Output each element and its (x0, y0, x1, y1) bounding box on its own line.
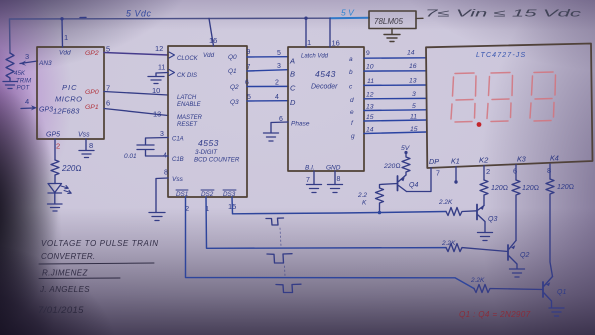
svg-text:K: K (362, 200, 367, 207)
potentiometer R-trim 45K (6, 53, 14, 79)
svg-text:POT: POT (17, 85, 31, 92)
wire GP0 pin7 to LATCH pin10 (104, 92, 168, 96)
ground Q1 (549, 308, 564, 316)
svg-text:120Ω: 120Ω (557, 184, 574, 191)
svg-text:8: 8 (547, 166, 551, 175)
svg-text:Vdd: Vdd (59, 50, 71, 57)
svg-text:2: 2 (275, 80, 279, 87)
svg-text:14: 14 (366, 127, 374, 134)
wire K1 stub (455, 167, 457, 181)
svg-text:5 Vdc: 5 Vdc (126, 9, 152, 19)
svg-text:5 V: 5 V (341, 8, 355, 18)
wire pin1 Vdd (61, 19, 64, 47)
svg-text:4553: 4553 (198, 138, 219, 148)
svg-text:3-DIGIT: 3-DIGIT (195, 149, 218, 156)
ground GND pin8 (328, 171, 343, 193)
svg-text:Latch Vdd: Latch Vdd (301, 54, 329, 60)
svg-text:PIC: PIC (62, 83, 78, 92)
svg-text:13: 13 (366, 104, 374, 111)
svg-text:MICRO: MICRO (55, 95, 83, 104)
svg-text:CLOCK: CLOCK (177, 56, 199, 62)
svg-text:DS1: DS1 (176, 191, 188, 198)
wire 5V rail traced segment to regulator (330, 17, 369, 19)
ground CK DIS pin11 (148, 73, 168, 84)
svg-text:120Ω: 120Ω (491, 185, 508, 192)
wire regulator input (416, 17, 423, 19)
wire GP1 pin6 to MASTER RESET pin13 (104, 109, 168, 116)
svg-text:15: 15 (366, 114, 374, 121)
regulator U2 78LM05 (369, 11, 416, 29)
svg-text:16: 16 (409, 63, 417, 70)
svg-text:GP2: GP2 (85, 50, 99, 57)
7seg digit 3 (530, 72, 556, 121)
transistor Q2 (507, 245, 509, 260)
svg-text:MASTER: MASTER (177, 115, 203, 121)
ground pot (3, 79, 17, 89)
svg-text:4: 4 (25, 97, 29, 106)
svg-text:GP0: GP0 (85, 89, 99, 96)
ground Vss 4553 pin8 (149, 178, 168, 221)
svg-text:2: 2 (56, 142, 60, 151)
svg-text:13: 13 (409, 78, 417, 85)
7seg digit 2 (487, 73, 513, 122)
ground BI pin7 (307, 171, 322, 193)
svg-text:Vss: Vss (78, 132, 90, 139)
svg-text:Decoder: Decoder (311, 84, 338, 91)
svg-text:f: f (351, 120, 354, 127)
svg-text:A: A (289, 57, 295, 66)
svg-text:2.2: 2.2 (357, 192, 367, 199)
ground LED (48, 193, 63, 211)
node junction dot rail/4543 (304, 17, 307, 20)
svg-text:CONVERTER.: CONVERTER. (41, 252, 95, 261)
svg-text:Q1: Q1 (228, 68, 237, 75)
wire DS1 bus (186, 197, 475, 289)
svg-text:3: 3 (160, 131, 164, 138)
resistor 2.2K to Q2 base (446, 244, 508, 252)
transistor Q1 (542, 282, 544, 297)
svg-text:1: 1 (307, 38, 311, 47)
svg-text:C1A: C1A (172, 137, 184, 143)
svg-text:2.2K: 2.2K (470, 277, 485, 284)
svg-text:a: a (349, 56, 353, 63)
svg-text:K4: K4 (550, 154, 559, 163)
svg-text:Q1: Q1 (557, 289, 566, 296)
wire DS2 bus (206, 197, 446, 248)
svg-text:9: 9 (247, 49, 251, 56)
svg-text:3: 3 (277, 63, 281, 70)
svg-text:Vss: Vss (172, 176, 184, 183)
svg-text:6: 6 (106, 99, 110, 108)
ground Phase pin6 (264, 122, 289, 141)
svg-text:Q3: Q3 (230, 99, 239, 106)
svg-text:D: D (290, 98, 296, 107)
svg-text:2.2K: 2.2K (438, 199, 453, 206)
svg-text:Phase: Phase (291, 121, 310, 128)
svg-text:Q3: Q3 (488, 216, 497, 223)
svg-text:2: 2 (486, 167, 490, 176)
counter U3 4553 (168, 46, 247, 197)
ground Vss PIC (79, 139, 94, 158)
svg-text:7≤ Vin ≤ 15 Vdc: 7≤ Vin ≤ 15 Vdc (425, 9, 581, 20)
svg-text:12F683: 12F683 (53, 107, 80, 116)
svg-text:10: 10 (152, 86, 160, 95)
svg-text:5: 5 (412, 103, 416, 110)
svg-text:AN3: AN3 (38, 60, 52, 67)
wire GP3 input arrow pin4 (21, 107, 33, 110)
svg-text:4: 4 (275, 94, 279, 101)
wire latch pin1 drop (305, 18, 307, 47)
svg-text:BCD COUNTER: BCD COUNTER (194, 157, 240, 164)
svg-text:RESET: RESET (177, 122, 198, 128)
svg-text:14: 14 (407, 50, 415, 57)
transistor Q3 (476, 205, 478, 220)
decimal point red (477, 122, 482, 127)
svg-text:GP3: GP3 (39, 107, 53, 114)
resistor 2.2K to Q1 base (474, 285, 543, 293)
capacitor C1 0.01 (137, 138, 168, 157)
svg-text:12: 12 (155, 44, 163, 53)
svg-text:10: 10 (366, 64, 374, 71)
node junction dot rail/pin1 (60, 17, 63, 20)
wire GP2 pin5 to CLOCK pin12 (104, 53, 168, 56)
resistor 2.2K to Q3 base (446, 208, 477, 216)
svg-text:5: 5 (106, 45, 110, 54)
wire K4 pin8 + resistor 120 ohm (549, 164, 551, 179)
svg-text:78LM05: 78LM05 (374, 17, 403, 26)
svg-text:C1B: C1B (172, 157, 184, 163)
svg-text:CK DIS: CK DIS (177, 73, 197, 79)
svg-text:GND: GND (326, 165, 341, 172)
svg-text:12: 12 (366, 92, 374, 99)
svg-text:1: 1 (64, 33, 68, 42)
svg-text:11: 11 (367, 78, 374, 85)
svg-text:7: 7 (306, 177, 310, 184)
wire DS3 bus (232, 197, 446, 214)
pin arrow CK DIS (169, 70, 175, 76)
wire 5Vdc power rail (10, 18, 331, 53)
svg-text:g: g (351, 133, 355, 140)
decoder U4 4543 (288, 47, 364, 171)
svg-text:LATCH: LATCH (177, 95, 197, 101)
ground regulator (384, 29, 400, 42)
svg-text:Q2: Q2 (520, 252, 529, 259)
svg-text:9: 9 (366, 50, 370, 57)
svg-text:R.JIMENEZ: R.JIMENEZ (42, 269, 89, 278)
svg-text:3: 3 (25, 52, 29, 61)
svg-text:15: 15 (410, 126, 418, 133)
svg-text:Q2: Q2 (230, 84, 239, 91)
svg-text:Q0: Q0 (228, 54, 237, 61)
svg-text:B.I.: B.I. (305, 165, 315, 172)
svg-text:Q1 : Q4 = 2N2907: Q1 : Q4 = 2N2907 (459, 310, 531, 319)
svg-text:TRIM: TRIM (16, 78, 32, 85)
resistor 2.2K Q4 base (376, 184, 398, 213)
pin arrow CLOCK (169, 52, 175, 58)
svg-text:Vdd: Vdd (203, 52, 215, 59)
svg-text:120Ω: 120Ω (522, 185, 539, 192)
wires Q0-Q3 to 4543 A-D (247, 56, 288, 58)
svg-text:7: 7 (106, 84, 110, 93)
svg-text:4543: 4543 (315, 69, 336, 79)
wire Vdd pin16 drop (329, 18, 331, 47)
svg-text:8: 8 (337, 176, 341, 183)
svg-text:7/01/2015: 7/01/2015 (38, 305, 84, 316)
wire AN3 to pot wiper with arrow (20, 61, 38, 64)
svg-text:7: 7 (436, 171, 440, 178)
svg-text:220Ω: 220Ω (61, 164, 82, 173)
transistor Q4 2N2907 (397, 176, 399, 191)
svg-text:K2: K2 (479, 156, 489, 165)
svg-text:5: 5 (277, 50, 281, 57)
wire Vdd pin16 drop (209, 18, 214, 46)
svg-text:7: 7 (247, 64, 251, 71)
svg-text:B: B (290, 70, 295, 79)
svg-text:ENABLE: ENABLE (177, 102, 202, 108)
waveform pulse DS3 (266, 218, 284, 225)
svg-text:DP: DP (429, 157, 439, 166)
display U5 LTC4727-JS (426, 44, 593, 169)
svg-text:6: 6 (245, 80, 249, 87)
wire GP5 to resistor (54, 139, 56, 160)
svg-text:b: b (349, 69, 353, 76)
svg-text:J. ANGELES: J. ANGELES (39, 285, 90, 294)
svg-text:d: d (350, 97, 354, 104)
svg-text:C: C (290, 84, 296, 93)
resistor R-led 220 ohm (51, 160, 59, 175)
waveform pulse DS1 (276, 284, 301, 292)
ground Q3 (478, 233, 493, 241)
svg-text:11: 11 (410, 114, 417, 121)
wire DP pin7 to Q4 collector (407, 168, 431, 192)
svg-text:11: 11 (158, 65, 165, 72)
wire K3 pin6 + resistor 120 ohm (515, 165, 517, 180)
svg-text:3: 3 (412, 91, 416, 98)
svg-text:45K: 45K (14, 70, 26, 77)
svg-text:DS3: DS3 (223, 191, 236, 198)
7seg digit 1 (451, 73, 476, 122)
svg-text:K3: K3 (517, 155, 526, 164)
svg-text:16: 16 (332, 39, 340, 48)
svg-text:c: c (349, 84, 353, 91)
svg-text:4: 4 (163, 153, 167, 160)
waveform pulse DS2 (267, 254, 292, 263)
svg-text:13: 13 (153, 110, 161, 119)
svg-text:LTC4727-JS: LTC4727-JS (476, 52, 526, 59)
LED D1 (54, 175, 56, 184)
dotted alignment marks (280, 228, 281, 246)
resistor 220 ohm Q4 emitter (402, 153, 410, 176)
svg-text:2.2K: 2.2K (441, 240, 456, 247)
svg-text:0.01: 0.01 (124, 153, 137, 160)
svg-text:220Ω: 220Ω (383, 163, 401, 170)
svg-text:8: 8 (89, 141, 93, 150)
wire K2 pin2 + resistor 120 ohm (483, 166, 485, 180)
ground Q2 (510, 269, 525, 277)
svg-text:GP1: GP1 (85, 104, 99, 111)
microcontroller U1 PIC 12F683 (37, 47, 104, 139)
wires segment a-g to display (364, 57, 426, 59)
svg-text:5: 5 (247, 94, 251, 101)
svg-text:Q4: Q4 (409, 182, 418, 189)
svg-text:DS2: DS2 (201, 191, 214, 198)
svg-text:6: 6 (513, 167, 517, 176)
svg-text:VOLTAGE TO PULSE TRAIN: VOLTAGE TO PULSE TRAIN (41, 239, 159, 248)
svg-text:e: e (350, 109, 354, 116)
svg-text:GP5: GP5 (46, 132, 60, 139)
svg-text:K1: K1 (451, 157, 460, 166)
svg-text:8: 8 (164, 170, 168, 177)
svg-text:16: 16 (209, 36, 217, 45)
